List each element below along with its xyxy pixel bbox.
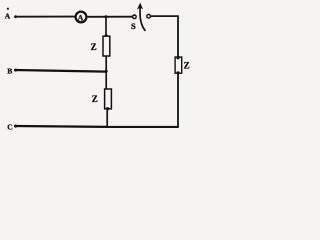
wire B-line	[14, 69, 17, 72]
wire middle branch top	[105, 17, 107, 37]
svg-text:S: S	[131, 21, 136, 31]
node junction top (A line to middle branch)	[105, 15, 108, 18]
wire right branch lower	[177, 73, 179, 127]
svg-text:Z: Z	[184, 61, 190, 71]
impedance Z (lower middle)	[92, 89, 112, 109]
node box3 terminal blobs	[176, 56, 179, 59]
svg-text:B: B	[7, 67, 12, 76]
wire switch to top-right corner	[151, 16, 178, 57]
wire bottom return	[107, 126, 179, 128]
svg-text:C: C	[7, 122, 12, 131]
switch S	[131, 3, 150, 32]
wire ammeter to switch	[87, 16, 133, 18]
node box1 top terminal blob	[105, 34, 108, 37]
svg-text:A: A	[5, 11, 11, 20]
node junction B	[105, 70, 108, 73]
svg-text:A: A	[78, 13, 84, 22]
node box2 bottom terminal blob	[106, 107, 109, 110]
ammeter A	[76, 12, 87, 23]
wire A-line left segment	[14, 15, 17, 18]
wire C-line	[14, 125, 17, 128]
impedance Z (upper middle)	[91, 36, 110, 56]
svg-text:Z: Z	[92, 94, 98, 104]
svg-text:Z: Z	[91, 42, 97, 52]
impedance Z (right branch)	[175, 57, 190, 73]
wire middle branch bottom	[106, 109, 108, 128]
node A	[5, 8, 11, 21]
wire middle branch between boxes	[105, 56, 107, 89]
